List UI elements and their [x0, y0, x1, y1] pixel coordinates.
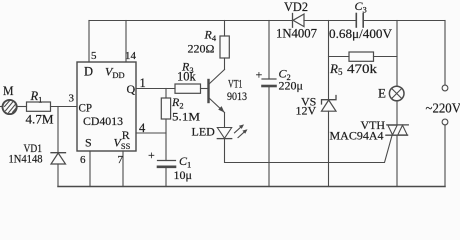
svg-text:10k: 10k: [177, 70, 197, 84]
svg-text:5.1M: 5.1M: [172, 109, 200, 123]
svg-text:14: 14: [125, 50, 137, 62]
wire Q pin1 output: [136, 88, 175, 90]
svg-text:+: +: [256, 68, 263, 82]
wire junction down to VD1: [57, 107, 59, 153]
wire C1 to bottom rail: [165, 167, 167, 187]
terminal top: [442, 85, 448, 91]
bottom rail: [58, 186, 445, 188]
svg-text:CP: CP: [79, 101, 93, 115]
touch electrode M: [0, 100, 17, 114]
svg-text:~220V: ~220V: [426, 101, 460, 116]
svg-text:1: 1: [140, 76, 146, 90]
resistor R5: [349, 52, 374, 61]
svg-text:6: 6: [80, 154, 86, 166]
resistor R4: [220, 36, 229, 58]
svg-text:220μ: 220μ: [279, 79, 303, 93]
wire emitter to LED: [224, 113, 226, 128]
svg-text:9013: 9013: [227, 89, 247, 103]
lamp E: [389, 86, 404, 101]
LED: [217, 124, 247, 138]
svg-text:3: 3: [69, 93, 75, 105]
svg-text:4.7M: 4.7M: [26, 113, 54, 127]
wire triac to bottom rail: [396, 135, 398, 186]
svg-text:4: 4: [139, 121, 146, 135]
svg-text:E: E: [378, 85, 386, 100]
wire R4 to top rail: [224, 21, 226, 37]
svg-text:+: +: [148, 148, 155, 162]
svg-text:1N4007: 1N4007: [276, 27, 317, 41]
svg-text:S: S: [85, 136, 92, 150]
diode VD1: [51, 153, 66, 164]
svg-text:MAC94A4: MAC94A4: [330, 129, 384, 143]
capacitor C1: [158, 161, 176, 167]
svg-text:470k: 470k: [347, 61, 378, 76]
resistor R2: [161, 98, 170, 119]
wire right branch down to terminal: [444, 21, 446, 86]
wire C2 to bottom rail: [268, 86, 270, 187]
wire VD1 to bottom rail: [57, 164, 59, 187]
wire R2 to C1: [165, 119, 167, 161]
svg-text:M: M: [3, 83, 14, 98]
wire pin14: [125, 21, 127, 63]
wire R5 right: [374, 56, 398, 58]
svg-text:10μ: 10μ: [174, 168, 192, 182]
wire zener branch from top rail: [328, 21, 330, 100]
triac VTH: [386, 125, 408, 135]
svg-text:5: 5: [91, 50, 97, 62]
capacitor C2: [262, 79, 276, 86]
svg-text:1N4148: 1N4148: [9, 152, 43, 166]
svg-text:7: 7: [118, 154, 124, 166]
svg-text:D: D: [84, 65, 93, 79]
svg-text:CD4013: CD4013: [83, 116, 123, 128]
terminal bottom: [442, 119, 448, 125]
wire pin4 R input: [136, 132, 166, 134]
wire lamp branch from top rail: [396, 21, 398, 87]
svg-text:220Ω: 220Ω: [188, 41, 215, 55]
wire pin5: [88, 21, 90, 63]
wire pin7: [122, 151, 124, 187]
svg-text:Q: Q: [127, 82, 136, 96]
wire R1 to IC pin3: [51, 106, 78, 108]
wire terminal to bottom rail: [444, 125, 446, 187]
capacitor C3: [356, 14, 363, 28]
IC U1 CD4013: [77, 62, 136, 151]
wire C2 branch: [268, 21, 270, 80]
resistor R3: [175, 84, 201, 93]
svg-text:VD2: VD2: [284, 0, 308, 14]
wire collector to R4: [224, 58, 226, 70]
wire pin6: [89, 151, 91, 187]
svg-text:R: R: [122, 128, 130, 142]
wire LED down and gate line: [225, 136, 393, 163]
diode VD2: [293, 14, 305, 28]
top rail: [89, 20, 292, 22]
resistor R1: [27, 102, 51, 111]
wire R2 stub: [165, 89, 167, 99]
wire R3 to base: [201, 88, 208, 90]
svg-text:0.68μ/400V: 0.68μ/400V: [329, 26, 393, 41]
zener VS: [322, 96, 337, 112]
wire zener to bottom rail: [328, 111, 330, 186]
svg-text:12V: 12V: [296, 104, 317, 118]
transistor VT1: [209, 70, 225, 113]
wire lamp to triac: [396, 101, 398, 125]
wire M to R1: [17, 106, 27, 108]
resistor R5 wire left: [329, 56, 350, 58]
svg-text:LED: LED: [192, 125, 216, 139]
